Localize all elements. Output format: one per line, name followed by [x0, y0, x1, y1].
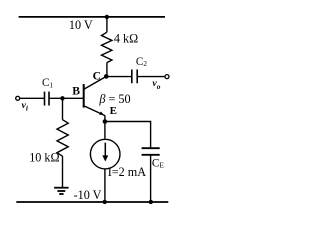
wire: bias node down to resistor R2: [62, 98, 64, 119]
svg-text:4 kΩ: 4 kΩ: [114, 31, 138, 45]
wire: lead from resistor R1 to node C: [106, 63, 108, 77]
svg-text:E: E: [110, 105, 117, 117]
svg-text:I=2 mA: I=2 mA: [108, 165, 147, 179]
wire: bottom -10V rail: [16, 201, 168, 203]
node: junction dot on top rail: [105, 15, 109, 19]
wire: capacitor C2 to output terminal: [137, 76, 165, 78]
wire: emitter to node E: [104, 115, 106, 138]
transistor Q1 base bar: [83, 84, 85, 108]
transistor Q1 emitter line with arrow: [84, 106, 105, 116]
ground symbol: [54, 187, 69, 189]
wire: input terminal to capacitor C1: [20, 97, 45, 99]
current source I1 circle: [90, 139, 120, 169]
wire: capacitor CE to bottom rail: [150, 155, 152, 202]
current source I1 arrow: [104, 143, 106, 158]
capacitor C1: [44, 92, 46, 106]
node C junction dot: [104, 74, 109, 79]
svg-text:10 kΩ: 10 kΩ: [29, 150, 59, 164]
node: junction dot source at bottom rail: [103, 200, 107, 204]
terminal: input vi open circle: [16, 96, 20, 100]
wire: capacitor C1 to transistor base: [49, 97, 84, 99]
svg-text:-10 V: -10 V: [74, 188, 102, 202]
capacitor CE: [142, 147, 160, 149]
terminal: output vo open circle: [165, 75, 169, 79]
svg-text:B: B: [72, 85, 80, 98]
resistor 4 kOhm: [102, 32, 112, 62]
node E junction dot: [103, 119, 108, 124]
wire: resistor R2 to ground: [62, 156, 64, 188]
wire: top +10V rail: [19, 16, 165, 18]
wire: node C to capacitor C2: [106, 76, 132, 78]
wire: lead from top rail to resistor R1: [106, 17, 108, 32]
resistor 10 kOhm: [57, 120, 68, 157]
capacitor C2: [131, 70, 133, 84]
svg-text:10 V: 10 V: [69, 18, 93, 32]
node: junction dot CE at bottom rail: [149, 200, 153, 204]
wire: node E to CE branch: [105, 122, 151, 149]
transistor Q1 collector line: [84, 76, 106, 89]
wire: current source to bottom rail: [104, 169, 106, 202]
node: junction dot at base/bias divider: [60, 96, 64, 100]
